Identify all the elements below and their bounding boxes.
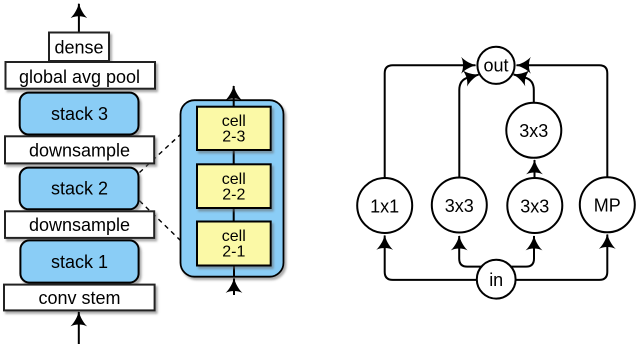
svg-text:stack 1: stack 1 [51,252,108,272]
svg-text:conv stem: conv stem [38,288,120,308]
node MP [580,177,635,232]
node 3x3 upper [506,103,561,158]
svg-text:2-1: 2-1 [222,244,245,261]
box stack 2 (blue) [20,168,139,210]
arrow below cell panel [233,266,235,296]
arrow above cell panel [233,86,235,107]
node 3x3 left [432,178,487,233]
edge 1x1 to out [385,65,476,178]
svg-text:MP: MP [594,196,621,216]
box stack 1 (blue) [20,240,138,282]
edge 3x3 (left) to out [459,75,478,178]
edge in to 3x3 (right) [511,236,534,267]
svg-text:cell: cell [222,113,246,130]
wire between cell 2-2 and cell 2-1 [233,208,235,222]
svg-text:cell: cell [222,228,246,245]
svg-text:3x3: 3x3 [520,196,549,216]
box dense [49,33,109,62]
svg-text:cell: cell [222,171,246,188]
svg-text:dense: dense [54,37,103,57]
box cell 2-2 [197,164,271,208]
svg-text:out: out [483,56,508,76]
edge 3x3 (upper) to out [514,75,534,103]
node 1x1 [357,178,412,233]
box global avg pool [6,62,156,89]
box downsample (upper) [5,136,154,163]
arrow out of dense (top arrow) [78,4,80,33]
node 3x3 right [507,178,562,233]
svg-text:3x3: 3x3 [445,196,474,216]
edge MP to out [517,65,608,177]
svg-text:2-2: 2-2 [222,186,245,203]
arrow into conv stem (bottom arrow) [78,312,80,344]
box cell 2-1 [197,222,271,266]
box conv stem [4,285,155,311]
cell stack panel (blue rounded) [181,100,284,277]
svg-text:downsample: downsample [29,140,130,160]
box downsample (lower) [5,211,154,238]
svg-text:3x3: 3x3 [519,121,548,141]
edge in to 3x3 (left) [459,236,481,267]
edge 3x3 (right) to 3x3 (upper) [534,160,536,178]
box stack 3 (blue) [20,93,139,135]
dashed line upper (stack 2 to cell panel) [140,134,182,173]
svg-text:1x1: 1x1 [370,196,399,216]
node in [477,260,516,299]
edge in to MP [516,235,608,280]
svg-text:stack 2: stack 2 [51,178,108,198]
svg-text:stack 3: stack 3 [51,104,108,124]
box cell 2-3 [197,107,271,150]
svg-text:2-3: 2-3 [222,129,245,146]
node out [477,47,514,84]
dashed line lower (stack 2 to cell panel) [140,201,182,242]
edge in to 1x1 [385,236,478,280]
svg-text:downsample: downsample [29,215,130,235]
wire between cell 2-3 and cell 2-2 [233,150,235,164]
svg-text:global avg pool: global avg pool [19,67,140,87]
svg-text:in: in [489,270,503,290]
